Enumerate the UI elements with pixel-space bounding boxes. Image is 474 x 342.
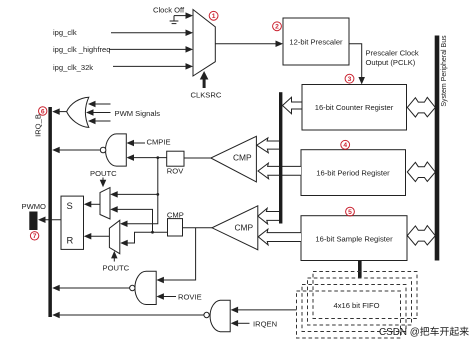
wire ipg_clk_32k to clock mux: [113, 63, 193, 70]
wire CMP branch up (vertical B) to mux1 input 2: [110, 206, 154, 233]
CLKSRC select arrow (thick up arrow): [200, 71, 209, 88]
nand-gate IRQEN interrupt: [210, 300, 230, 332]
wire flip-flop output to PWMO pad: [38, 217, 61, 224]
svg-text:ROVIE: ROVIE: [178, 292, 202, 301]
bidirectional bus arrow period register to system bus: [407, 162, 435, 182]
hollow bus arrow sample register to CMP2: [258, 229, 301, 245]
wire ipg_clk_highfreq to clock mux: [109, 46, 193, 53]
svg-text:CMP: CMP: [233, 152, 252, 162]
svg-text:ipg_clk_32k: ipg_clk_32k: [53, 63, 93, 72]
svg-text:7: 7: [33, 233, 37, 240]
svg-text:ipg_clk: ipg_clk: [53, 28, 77, 37]
block 12-bit Prescaler: [283, 18, 349, 65]
inverter bubble of CMPIE gate: [100, 147, 106, 153]
block CMP: [167, 210, 184, 236]
wire CMPIE to CMPIE gate input 1: [127, 140, 146, 147]
wire ipg_clk to clock mux: [111, 30, 193, 37]
comparator CMP2 (sample compare): [212, 206, 258, 250]
svg-text:12-bit Prescaler: 12-bit Prescaler: [289, 37, 343, 46]
FIFO card 4 (front) with label 4x16 bit FIFO: [297, 291, 401, 338]
svg-text:5: 5: [348, 209, 352, 216]
svg-text:4x16 bit FIFO: 4x16 bit FIFO: [333, 301, 379, 310]
bus bar System Peripheral Bus: [435, 36, 440, 261]
svg-text:CMP: CMP: [167, 210, 184, 219]
svg-text:Prescaler Clock: Prescaler Clock: [366, 48, 419, 57]
svg-text:4: 4: [343, 142, 347, 149]
wire Clock Off to clock mux: [174, 12, 193, 19]
wire ROVIE gate output to IRQ_B bar: [52, 285, 129, 292]
wire IRQEN to IRQEN gate input 2: [231, 320, 250, 327]
inverter bubble of IRQEN gate: [204, 312, 209, 317]
wire PWM signal 3 into or-gate: [88, 118, 111, 125]
hollow bus arrow period register to CMP1: [258, 163, 301, 179]
comparator CMP1 (period compare): [211, 136, 257, 182]
svg-text:System Peripheral Bus: System Peripheral Bus: [441, 35, 448, 107]
numbered marker 2: [273, 22, 282, 31]
svg-text:IRQ_B: IRQ_B: [34, 114, 43, 137]
inverter bubble of ROVIE gate: [130, 285, 135, 290]
bus bar IRQ_B (interrupt bar): [48, 107, 52, 317]
nand-gate CMPIE interrupt: [105, 134, 126, 166]
svg-text:CSDN @把车开起来: CSDN @把车开起来: [379, 325, 469, 338]
POUTC select arrow into lower mux: [111, 251, 118, 262]
wire PWM signal 1 into or-gate: [88, 101, 111, 108]
multiplexer POUTC upper (set source mux): [100, 188, 110, 220]
FIFO card 2: [308, 278, 412, 325]
numbered marker 6: [39, 107, 47, 116]
wire FIFO to IRQEN gate input 1: [231, 307, 297, 314]
wire CMP2 output to CMP box: [183, 227, 213, 229]
wire clock mux output to prescaler: [215, 40, 283, 47]
svg-text:POUTC: POUTC: [103, 264, 130, 273]
flip-flop S/R latch: [61, 196, 84, 249]
svg-text:ipg_clk _highfreq: ipg_clk _highfreq: [53, 45, 110, 54]
thick wire sample register to FIFO: [358, 261, 362, 278]
bidirectional bus arrow counter register to system bus: [407, 97, 435, 117]
multiplexer CLKSRC (clock source mux): [193, 10, 215, 77]
wire CMP2 output branch down to ROVIE gate input 1: [156, 228, 195, 284]
POUTC select arrow into upper mux: [100, 178, 107, 188]
numbered marker 1: [209, 11, 218, 20]
numbered marker 4: [341, 140, 350, 149]
wire CMPIE gate output to IRQ_B bar: [52, 147, 100, 154]
hollow bus arrow counter bus to CMP1: [257, 138, 281, 153]
svg-text:16-bit Sample Register: 16-bit Sample Register: [315, 235, 393, 244]
numbered marker 7: [30, 232, 38, 241]
svg-text:CLKSRC: CLKSRC: [191, 90, 222, 99]
svg-text:1: 1: [212, 13, 216, 20]
wire upper mux output to S input: [84, 201, 100, 208]
wire lower mux output to R input: [84, 233, 110, 240]
block 16-bit Sample Register: [301, 216, 407, 261]
svg-text:16-bit Counter Register: 16-bit Counter Register: [315, 103, 394, 112]
svg-text:PWM Signals: PWM Signals: [115, 109, 161, 118]
wire prescaler output PCLK to counter register: [349, 44, 365, 85]
wire ROVIE to ROVIE gate input 2: [156, 293, 176, 300]
node Prescaler Clock Output (PCLK) label: [366, 48, 419, 66]
block 16-bit Period Register: [301, 150, 406, 196]
wire IRQEN gate output to IRQ_B bar: [52, 312, 204, 319]
hollow arrow counter register to counter bus bar: [283, 97, 303, 113]
svg-text:S: S: [67, 200, 73, 211]
FIFO card 1 (back): [313, 272, 417, 319]
PWMO pad (black rectangle): [29, 212, 37, 231]
FIFO card 3: [302, 285, 406, 332]
svg-text:3: 3: [348, 76, 352, 83]
wire PWM signal 2 into or-gate: [86, 109, 111, 116]
svg-text:POUTC: POUTC: [90, 169, 117, 178]
numbered marker 3: [345, 74, 354, 83]
wire or-gate output to IRQ_B bar: [52, 108, 66, 115]
multiplexer POUTC lower (reset source mux): [109, 220, 119, 253]
svg-text:R: R: [67, 235, 74, 246]
ground symbol below Clock Off: [170, 16, 179, 24]
svg-text:16-bit Period Register: 16-bit Period Register: [316, 169, 390, 178]
svg-text:Output (PCLK): Output (PCLK): [366, 58, 416, 67]
bus bar counter value: [279, 92, 282, 223]
svg-text:CMP: CMP: [235, 223, 254, 233]
wire CMP box output left to mux2 input 2: [120, 232, 167, 246]
wire ROV branch down (vertical A) to mux2 input 1: [120, 156, 159, 227]
nand-gate ROVIE interrupt: [135, 271, 156, 304]
wire vertical A branch to mux1 input 1: [110, 191, 159, 198]
svg-text:IRQEN: IRQEN: [253, 319, 277, 328]
svg-text:CMPIE: CMPIE: [147, 137, 171, 146]
svg-text:Clock Off: Clock Off: [153, 6, 185, 15]
svg-text:2: 2: [275, 24, 279, 31]
block 16-bit Counter Register: [302, 85, 407, 131]
hollow bus arrow counter bus to CMP2: [258, 208, 281, 224]
svg-text:PWMO: PWMO: [22, 202, 47, 211]
numbered marker 5: [346, 207, 355, 216]
bidirectional bus arrow sample register to system bus: [407, 226, 435, 246]
or-gate PWM interrupt combine: [67, 97, 89, 127]
wire CMP1 output to ROV box: [184, 157, 211, 159]
wire ROV output to CMPIE gate input 2: [127, 154, 167, 161]
svg-text:ROV: ROV: [167, 166, 184, 175]
block ROV: [167, 151, 184, 175]
